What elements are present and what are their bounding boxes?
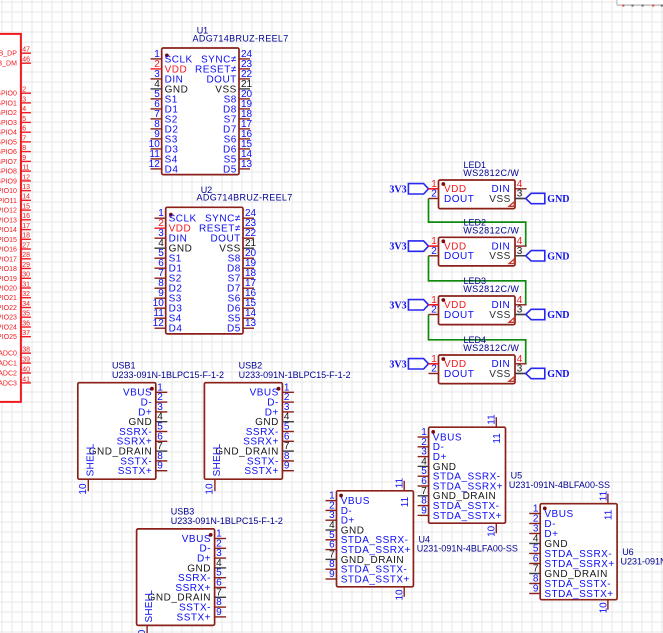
MCU pin 47 (B_DP) xyxy=(0,47,31,58)
component body xyxy=(439,237,516,266)
pin-1 marker dot xyxy=(165,54,169,58)
svg-text:15: 15 xyxy=(22,204,30,211)
wire LED3 DOUT to LED4 DIN xyxy=(429,315,526,364)
svg-text:U231-091N-4BLFA00-SS: U231-091N-4BLFA00-SS xyxy=(417,544,518,554)
MCU pin 13 (GPIO10) xyxy=(0,184,31,195)
corner marker triangle xyxy=(509,259,514,264)
svg-text:ADC2: ADC2 xyxy=(0,371,17,378)
svg-text:GPIO0: GPIO0 xyxy=(0,91,17,98)
svg-text:7: 7 xyxy=(22,135,26,142)
U2 pin 2 (VDD) xyxy=(155,218,192,234)
svg-text:GPIO3: GPIO3 xyxy=(0,120,17,127)
MCU pin 6 (GPIO4) xyxy=(0,126,31,137)
U1 pin 15 (D6) xyxy=(223,139,253,155)
MCU pin 7 (GPIO5) xyxy=(0,135,31,146)
MCU pin 14 (GPIO11) xyxy=(0,194,31,205)
svg-text:3V3: 3V3 xyxy=(389,242,406,253)
corner marker triangle xyxy=(509,202,514,207)
USB1 pin 10 (SHELL) xyxy=(78,443,96,494)
U5 pin 2 (D-) xyxy=(418,437,445,453)
USB1 pin 5 (SSRX-) xyxy=(119,422,167,438)
svg-text:GPIO25: GPIO25 xyxy=(0,334,17,341)
U4 pin 9 (STDA_SSTX+) xyxy=(326,569,410,585)
svg-text:GPIO22: GPIO22 xyxy=(0,305,17,312)
MCU pin 31 (GPIO20) xyxy=(0,281,31,292)
svg-text:41: 41 xyxy=(22,376,30,383)
LED4 pin 4 (DIN) xyxy=(491,354,526,370)
LED2 pin 4 (DIN) xyxy=(491,236,526,252)
svg-text:29: 29 xyxy=(22,262,30,269)
U1 pin 1 (SCLK) xyxy=(151,49,193,65)
svg-text:GPIO7: GPIO7 xyxy=(0,159,17,166)
svg-text:4: 4 xyxy=(22,106,26,113)
U5 pin 9 (STDA_SSTX+) xyxy=(418,505,502,521)
svg-text:B_DP: B_DP xyxy=(0,51,17,58)
svg-text:11: 11 xyxy=(22,165,29,172)
MCU pin 32 (GPIO21) xyxy=(0,291,31,302)
LED1 pin 3 (VSS) xyxy=(489,189,525,205)
svg-text:STDA_SSTX+: STDA_SSTX+ xyxy=(433,511,502,522)
U4 pin 11 (top shield) xyxy=(395,477,411,507)
USB2 pin 1 (VBUS) xyxy=(250,382,294,398)
U4 pin 8 (STDA_SSTX-) xyxy=(326,559,408,575)
LED3 pin 3 (VSS) xyxy=(489,305,525,321)
svg-text:ADG714BRUZ-REEL7: ADG714BRUZ-REEL7 xyxy=(193,33,289,43)
MCU pin 3 (GPIO1) xyxy=(0,96,31,107)
LED1 pin 4 (DIN) xyxy=(491,179,526,195)
svg-text:DOUT: DOUT xyxy=(444,369,474,380)
component body xyxy=(429,427,506,523)
svg-text:11: 11 xyxy=(395,477,406,488)
connector USB2 U233-091N-1BLPC15-F-1-2 xyxy=(204,360,350,494)
USB2 pin 9 (SSTX+) xyxy=(244,461,294,477)
svg-text:GPIO1: GPIO1 xyxy=(0,100,17,107)
svg-text:GPIO23: GPIO23 xyxy=(0,315,17,322)
svg-text:18: 18 xyxy=(22,233,30,240)
USB1 pin 4 (GND) xyxy=(128,412,167,428)
U4 pin 10 (bottom shield) xyxy=(395,587,406,601)
svg-text:D5: D5 xyxy=(227,324,241,335)
svg-text:GPIO21: GPIO21 xyxy=(0,295,17,302)
svg-text:B_DM: B_DM xyxy=(0,61,17,68)
U1 pin 2 (VDD) xyxy=(151,59,188,75)
USB3 pin 9 (SSTX+) xyxy=(177,607,227,623)
MCU pin 35 (GPIO23) xyxy=(0,311,31,322)
U1 pin 19 (D8) xyxy=(223,99,253,115)
U2 pin 13 (D5) xyxy=(227,318,257,334)
MCU pin 9 (GPIO7) xyxy=(0,155,31,166)
U2 pin 12 (D4) xyxy=(153,318,183,334)
USB2 pin 5 (SSRX-) xyxy=(246,422,294,438)
MCU pin 4 (GPIO2) xyxy=(0,106,31,117)
svg-text:11: 11 xyxy=(598,490,609,501)
U1 pin 18 (S7) xyxy=(224,109,253,125)
LED4 pin 1 (VDD) xyxy=(431,354,466,370)
pin-1 marker dot xyxy=(169,213,173,217)
svg-text:10: 10 xyxy=(205,483,216,495)
power port 3V3 xyxy=(389,359,428,371)
MCU pin 41 (ADC3) xyxy=(0,376,31,387)
svg-text:GPIO12: GPIO12 xyxy=(0,208,17,215)
pin-1 marker dot xyxy=(150,387,154,391)
svg-text:WS2812C/W: WS2812C/W xyxy=(463,225,519,235)
U6 pin 7 (GND_DRAIN) xyxy=(529,564,608,580)
U4 pin 2 (D-) xyxy=(326,500,353,516)
MCU pin 46 (B_DM) xyxy=(0,57,31,68)
LED3 WS2812C/W xyxy=(389,276,569,324)
LED2 pin 3 (VSS) xyxy=(489,246,525,262)
U2 pin 4 (GND) xyxy=(155,238,193,254)
U6 pin 8 (STDA_SSTX-) xyxy=(529,574,611,590)
MCU pin 8 (GPIO6) xyxy=(0,145,31,156)
LED1 WS2812C/W xyxy=(389,160,569,208)
corner marker triangle xyxy=(509,318,514,323)
U2 pin 10 (D3) xyxy=(153,298,183,314)
USB1 pin 8 (SSTX-) xyxy=(120,451,167,467)
svg-text:WS2812C/W: WS2812C/W xyxy=(463,284,519,294)
svg-text:U233-091N-1BLPC15-F-1-2: U233-091N-1BLPC15-F-1-2 xyxy=(171,516,283,526)
LED4 pin 3 (VSS) xyxy=(489,364,525,380)
LED3 pin 4 (DIN) xyxy=(491,295,526,311)
U6 pin 1 (VBUS) xyxy=(529,504,573,520)
corner marker triangle xyxy=(509,377,514,382)
svg-text:2: 2 xyxy=(22,87,26,94)
svg-text:VSS: VSS xyxy=(489,369,511,380)
MCU pin 2 (GPIO0) xyxy=(0,87,31,98)
svg-text:GPIO19: GPIO19 xyxy=(0,276,17,283)
svg-text:40: 40 xyxy=(22,366,30,373)
svg-text:U233-091N-1BLPC15-F-1-2: U233-091N-1BLPC15-F-1-2 xyxy=(239,370,351,380)
pin-1 marker dot xyxy=(441,298,445,302)
pin-1 marker dot xyxy=(441,357,445,361)
svg-text:10: 10 xyxy=(395,589,406,601)
U1 pin 3 (DIN) xyxy=(151,69,184,85)
svg-text:3: 3 xyxy=(22,96,26,103)
USB2 pin 3 (D+) xyxy=(265,402,294,418)
U2 pin 15 (D6) xyxy=(227,298,257,314)
wire 3V3 to VDD xyxy=(429,304,439,306)
U5 pin 4 (GND) xyxy=(418,456,457,472)
wire 3V3 to VDD xyxy=(429,363,439,365)
svg-text:2: 2 xyxy=(431,364,437,375)
pin-1 marker dot xyxy=(441,239,445,243)
U2 pin 20 (S8) xyxy=(228,248,257,264)
power port GND xyxy=(515,193,570,205)
MCU pin 15 (GPIO12) xyxy=(0,204,31,215)
power port 3V3 xyxy=(389,184,428,196)
svg-text:47: 47 xyxy=(22,47,30,54)
U1 pin 8 (D2) xyxy=(151,119,179,135)
USB2 pin 2 (D-) xyxy=(267,392,294,408)
svg-text:SHELL: SHELL xyxy=(144,590,155,623)
U1 pin 20 (S8) xyxy=(224,89,253,105)
USB3 pin 7 (GND_DRAIN) xyxy=(148,587,227,603)
svg-text:VSS: VSS xyxy=(489,251,511,262)
U4 pin 3 (D+) xyxy=(326,510,355,526)
U2 pin 21 (VSS) xyxy=(219,238,256,254)
U1 pin 23 (RESET≠) xyxy=(195,59,253,75)
U1 pin 22 (DOUT) xyxy=(206,69,252,85)
U2 pin 5 (S1) xyxy=(155,248,182,264)
MCU pin 36 (GPIO24) xyxy=(0,320,31,331)
svg-text:10: 10 xyxy=(598,602,609,614)
svg-text:VSS: VSS xyxy=(489,194,511,205)
U5 pin 6 (STDA_SSRX+) xyxy=(418,476,504,492)
svg-text:11: 11 xyxy=(487,414,498,425)
svg-text:SSTX+: SSTX+ xyxy=(244,466,278,477)
svg-text:2: 2 xyxy=(431,305,437,316)
svg-text:VSS: VSS xyxy=(489,310,511,321)
USB1 pin 9 (SSTX+) xyxy=(118,461,168,477)
svg-text:GPIO16: GPIO16 xyxy=(0,247,17,254)
svg-text:D4: D4 xyxy=(165,164,179,175)
component body xyxy=(166,207,243,334)
U1 pin 5 (S1) xyxy=(151,89,178,105)
IC U2 ADG714BRUZ-REEL7 xyxy=(153,185,293,335)
component body xyxy=(78,383,156,480)
USB3 pin 6 (SSRX+) xyxy=(175,578,226,594)
svg-text:DOUT: DOUT xyxy=(444,310,474,321)
U2 pin 23 (RESET≠) xyxy=(199,218,257,234)
U6 pin 10 (bottom shield) xyxy=(598,600,609,614)
svg-text:GPIO18: GPIO18 xyxy=(0,266,17,273)
USB1 pin 3 (D+) xyxy=(138,402,167,418)
U1 pin 10 (D3) xyxy=(149,139,179,155)
component body xyxy=(137,529,215,626)
U2 pin 1 (SCLK) xyxy=(155,208,197,224)
MCU pin 16 (GPIO13) xyxy=(0,213,31,224)
svg-text:USB3: USB3 xyxy=(171,507,195,517)
USB3 pin 1 (VBUS) xyxy=(182,529,226,545)
svg-text:D4: D4 xyxy=(169,324,183,335)
wire 3V3 to VDD xyxy=(429,188,439,190)
USB3 pin 10 (SHELL) xyxy=(137,590,155,633)
U1 pin 12 (D4) xyxy=(149,159,179,175)
MCU pin 39 (ADC1) xyxy=(0,357,31,368)
U5 pin 8 (STDA_SSTX-) xyxy=(418,496,500,512)
pin-1 marker dot xyxy=(339,494,343,498)
wire LED1 DOUT to LED2 DIN xyxy=(429,199,526,247)
power port 3V3 xyxy=(389,300,428,312)
MCU pin 40 (ADC2) xyxy=(0,366,31,377)
wire LED2 DOUT to LED3 DIN xyxy=(429,256,526,305)
svg-text:36: 36 xyxy=(22,320,30,327)
U5 pin 1 (VBUS) xyxy=(418,427,462,443)
microcontroller U? (left edge, partially off-sheet, selected red) xyxy=(0,34,31,402)
MCU pin 11 (GPIO8) xyxy=(0,165,31,176)
USB3 pin 4 (GND) xyxy=(187,558,226,574)
U4 pin 4 (GND) xyxy=(326,520,365,536)
svg-text:SHELL: SHELL xyxy=(212,443,223,476)
MCU pin 29 (GPIO18) xyxy=(0,262,31,273)
svg-text:ADG714BRUZ-REEL7: ADG714BRUZ-REEL7 xyxy=(197,193,293,203)
MCU pin 5 (GPIO3) xyxy=(0,116,31,127)
svg-text:9: 9 xyxy=(533,584,539,595)
svg-text:32: 32 xyxy=(22,291,30,298)
U1 pin 13 (D5) xyxy=(223,159,253,175)
U2 pin 22 (DOUT) xyxy=(210,228,256,244)
svg-text:5: 5 xyxy=(22,116,26,123)
power port GND xyxy=(515,309,570,321)
USB1 pin 1 (VBUS) xyxy=(123,382,167,398)
USB2 pin 7 (GND_DRAIN) xyxy=(215,441,294,457)
svg-text:SSTX+: SSTX+ xyxy=(118,466,152,477)
svg-text:STDA_SSTX+: STDA_SSTX+ xyxy=(341,574,410,585)
USB3 pin 8 (SSTX-) xyxy=(179,597,226,613)
svg-text:12: 12 xyxy=(153,318,165,329)
USB2 pin 10 (SHELL) xyxy=(205,443,223,494)
svg-text:USB1: USB1 xyxy=(112,360,136,370)
component body xyxy=(540,504,617,600)
svg-text:10: 10 xyxy=(137,629,148,633)
U2 pin 24 (SYNC≠) xyxy=(205,208,257,224)
svg-text:GPIO9: GPIO9 xyxy=(0,178,17,185)
U6 pin 3 (D+) xyxy=(529,524,558,540)
svg-text:ADC1: ADC1 xyxy=(0,361,17,368)
svg-text:27: 27 xyxy=(22,242,30,249)
svg-text:12: 12 xyxy=(149,159,161,170)
LED4 pin 2 (DOUT) xyxy=(429,364,475,380)
svg-text:U233-091N-1BLPC15-F-1-2: U233-091N-1BLPC15-F-1-2 xyxy=(112,370,224,380)
svg-text:DOUT: DOUT xyxy=(444,194,474,205)
U2 pin 7 (S2) xyxy=(155,268,182,284)
svg-text:GPIO13: GPIO13 xyxy=(0,217,17,224)
svg-text:46: 46 xyxy=(22,57,30,64)
svg-text:12: 12 xyxy=(22,174,30,181)
svg-text:11: 11 xyxy=(400,496,411,507)
svg-text:11: 11 xyxy=(492,433,503,444)
svg-text:2: 2 xyxy=(431,246,437,257)
svg-text:GPIO15: GPIO15 xyxy=(0,237,17,244)
svg-text:13: 13 xyxy=(245,318,257,329)
U4 pin 7 (GND_DRAIN) xyxy=(326,549,405,565)
U2 pin 9 (S3) xyxy=(155,288,182,304)
U2 pin 8 (D2) xyxy=(155,278,183,294)
svg-text:GPIO2: GPIO2 xyxy=(0,110,17,117)
pin-1 marker dot xyxy=(431,430,435,434)
svg-text:9: 9 xyxy=(22,155,26,162)
U2 pin 17 (D7) xyxy=(227,278,257,294)
MCU pin 38 (ADC0) xyxy=(0,347,31,358)
U6 pin 6 (STDA_SSRX+) xyxy=(529,554,615,570)
svg-text:10: 10 xyxy=(487,525,498,537)
svg-text:GND: GND xyxy=(547,310,569,321)
svg-text:39: 39 xyxy=(22,357,30,364)
top-right window/panel fragment xyxy=(616,0,663,7)
component body xyxy=(162,48,239,175)
U5 pin 7 (GND_DRAIN) xyxy=(418,486,497,502)
svg-text:GND: GND xyxy=(547,194,569,205)
svg-text:GPIO5: GPIO5 xyxy=(0,139,17,146)
U2 pin 16 (S6) xyxy=(228,288,257,304)
MCU pin 34 (GPIO22) xyxy=(0,301,31,312)
MCU pin 28 (GPIO17) xyxy=(0,252,31,263)
LED4 WS2812C/W xyxy=(389,335,569,383)
U1 pin 24 (SYNC≠) xyxy=(201,49,253,65)
svg-text:37: 37 xyxy=(22,330,30,337)
IC U1 ADG714BRUZ-REEL7 xyxy=(149,26,289,176)
U2 pin 18 (S7) xyxy=(228,268,257,284)
U5 pin 11 (top shield) xyxy=(487,414,503,444)
svg-text:WS2812C/W: WS2812C/W xyxy=(463,168,519,178)
MCU pin 17 (GPIO14) xyxy=(0,223,31,234)
U1 pin 11 (S4) xyxy=(149,149,177,165)
svg-text:GND: GND xyxy=(547,251,569,262)
svg-text:31: 31 xyxy=(22,281,30,288)
U1 pin 17 (D7) xyxy=(223,119,253,135)
svg-text:9: 9 xyxy=(421,505,427,516)
svg-text:GPIO11: GPIO11 xyxy=(0,198,17,205)
svg-text:GPIO4: GPIO4 xyxy=(0,130,17,137)
USB3 pin 2 (D-) xyxy=(199,538,226,554)
MCU pin 18 (GPIO15) xyxy=(0,233,31,244)
U4 pin 5 (STDA_SSRX-) xyxy=(326,530,409,546)
U1 pin 9 (S3) xyxy=(151,129,178,145)
svg-text:GPIO20: GPIO20 xyxy=(0,286,17,293)
component body xyxy=(439,296,516,325)
MCU pin 30 (GPIO19) xyxy=(0,272,31,283)
pin-1 marker dot xyxy=(209,533,213,537)
connector USB1 U233-091N-1BLPC15-F-1-2 xyxy=(78,360,224,494)
U2 pin 6 (D1) xyxy=(155,258,183,274)
U2 pin 14 (S5) xyxy=(228,308,257,324)
LED1 pin 2 (DOUT) xyxy=(429,189,475,205)
USB1 pin 7 (GND_DRAIN) xyxy=(89,441,168,457)
power port GND xyxy=(515,368,570,380)
connector U4 U231-091N-4BLFA00-SS xyxy=(326,477,518,600)
svg-text:16: 16 xyxy=(22,213,30,220)
component body xyxy=(439,355,516,384)
U6 pin 2 (D-) xyxy=(529,514,556,530)
USB2 pin 8 (SSTX-) xyxy=(247,451,294,467)
component body xyxy=(337,491,414,587)
pin-1 marker dot xyxy=(543,507,547,511)
svg-text:U231-091N-4BLFA00-SS: U231-091N-4BLFA00-SS xyxy=(621,556,663,566)
svg-text:2: 2 xyxy=(431,189,437,200)
svg-text:6: 6 xyxy=(22,126,26,133)
LED1 pin 1 (VDD) xyxy=(431,179,466,195)
svg-text:USB2: USB2 xyxy=(239,360,263,370)
power port 3V3 xyxy=(389,241,428,253)
U5 pin 5 (STDA_SSRX-) xyxy=(418,466,501,482)
svg-text:8: 8 xyxy=(22,145,26,152)
connector U6 U231-091N-4BLFA00-SS xyxy=(529,490,663,613)
svg-text:GPIO6: GPIO6 xyxy=(0,149,17,156)
svg-text:13: 13 xyxy=(22,184,30,191)
MCU pin 27 (GPIO16) xyxy=(0,242,31,253)
USB2 pin 4 (GND) xyxy=(255,412,294,428)
svg-text:DOUT: DOUT xyxy=(444,251,474,262)
svg-text:SSTX+: SSTX+ xyxy=(177,612,211,623)
U4 pin 1 (VBUS) xyxy=(326,491,370,507)
svg-text:STDA_SSTX+: STDA_SSTX+ xyxy=(544,589,613,600)
svg-text:GPIO17: GPIO17 xyxy=(0,256,17,263)
LED2 pin 2 (DOUT) xyxy=(429,246,475,262)
U4 pin 6 (STDA_SSRX+) xyxy=(326,540,412,556)
svg-text:38: 38 xyxy=(22,347,30,354)
LED2 pin 1 (VDD) xyxy=(431,236,466,252)
LED3 pin 2 (DOUT) xyxy=(429,305,475,321)
U1 pin 14 (S5) xyxy=(224,149,253,165)
svg-text:D5: D5 xyxy=(223,164,237,175)
svg-text:U231-091N-4BLFA00-SS: U231-091N-4BLFA00-SS xyxy=(509,480,610,490)
component body xyxy=(204,383,282,480)
svg-text:GPIO24: GPIO24 xyxy=(0,325,17,332)
svg-text:ADC0: ADC0 xyxy=(0,351,17,358)
U2 pin 19 (D8) xyxy=(227,258,257,274)
svg-text:9: 9 xyxy=(216,607,222,618)
svg-text:ADC3: ADC3 xyxy=(0,380,17,387)
